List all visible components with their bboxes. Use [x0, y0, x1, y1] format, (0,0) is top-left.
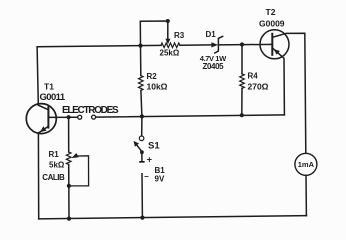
svg-text:R3: R3	[174, 31, 185, 40]
svg-text:25kΩ: 25kΩ	[160, 49, 180, 58]
svg-text:9V: 9V	[155, 175, 165, 184]
svg-text:R1: R1	[49, 150, 60, 159]
svg-text:ELECTRODES: ELECTRODES	[62, 105, 119, 116]
svg-text:T2: T2	[266, 7, 276, 17]
svg-text:G0009: G0009	[259, 19, 285, 29]
svg-text:T1: T1	[44, 82, 54, 92]
svg-text:270Ω: 270Ω	[248, 82, 269, 92]
svg-text:CALIB: CALIB	[42, 173, 65, 182]
svg-text:D1: D1	[206, 30, 217, 39]
svg-text:G0011: G0011	[40, 92, 66, 103]
svg-text:1mA: 1mA	[298, 160, 315, 169]
svg-text:+: +	[147, 155, 152, 165]
svg-text:5kΩ: 5kΩ	[49, 161, 65, 170]
svg-text:−: −	[144, 172, 149, 181]
svg-text:Z0405: Z0405	[203, 62, 225, 71]
svg-text:R2: R2	[147, 72, 158, 81]
svg-text:10kΩ: 10kΩ	[147, 82, 168, 92]
svg-text:R4: R4	[248, 72, 259, 81]
svg-text:S1: S1	[148, 140, 160, 151]
